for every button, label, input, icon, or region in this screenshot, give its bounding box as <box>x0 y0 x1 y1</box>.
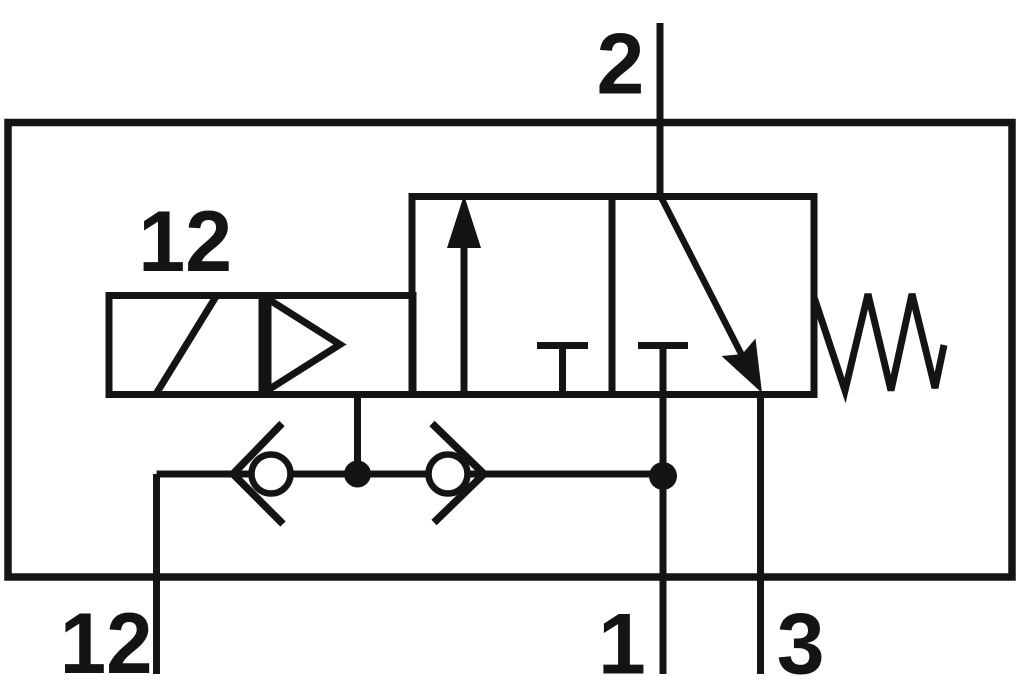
svg-text:3: 3 <box>777 597 825 693</box>
pilot slash symbol <box>156 297 216 395</box>
check valve 1 ball <box>252 455 291 494</box>
flow arrow head (left box) <box>447 195 481 248</box>
pilot actuator box 12 <box>109 296 413 395</box>
svg-text:12: 12 <box>138 194 232 290</box>
svg-text:2: 2 <box>597 17 645 113</box>
svg-text:1: 1 <box>598 597 646 693</box>
pilot box divider <box>259 296 266 395</box>
blocked port T (right box) <box>638 346 688 395</box>
pilot triangle symbol <box>268 299 340 390</box>
svg-text:12: 12 <box>60 596 153 692</box>
pilot drop wire <box>354 395 361 475</box>
valve position box right (2 to 3 exhaust) <box>612 197 814 395</box>
port 3 wire <box>757 395 764 675</box>
exhaust diagonal shaft (right box, 2 to 3) <box>661 197 752 375</box>
junction dot (port 1) <box>649 462 677 490</box>
junction dot (pilot line) <box>344 461 371 488</box>
port 12 wire (vertical) <box>153 474 160 674</box>
flow arrow shaft (left box, 1 to 2) <box>461 240 468 395</box>
check valve 2 seat <box>432 424 484 523</box>
valve position box left (1 to 2 flow) <box>412 197 612 395</box>
check valve 1 seat <box>233 424 283 525</box>
enclosure frame <box>8 123 1012 578</box>
return spring <box>814 294 944 391</box>
pilot supply wire (horizontal) <box>157 471 664 478</box>
check valve 2 ball <box>429 455 468 494</box>
exhaust arrow head (right box) <box>722 339 763 394</box>
port 1 wire <box>660 395 667 675</box>
blocked port T (left box) <box>537 346 588 395</box>
port 2 wire <box>657 23 664 197</box>
